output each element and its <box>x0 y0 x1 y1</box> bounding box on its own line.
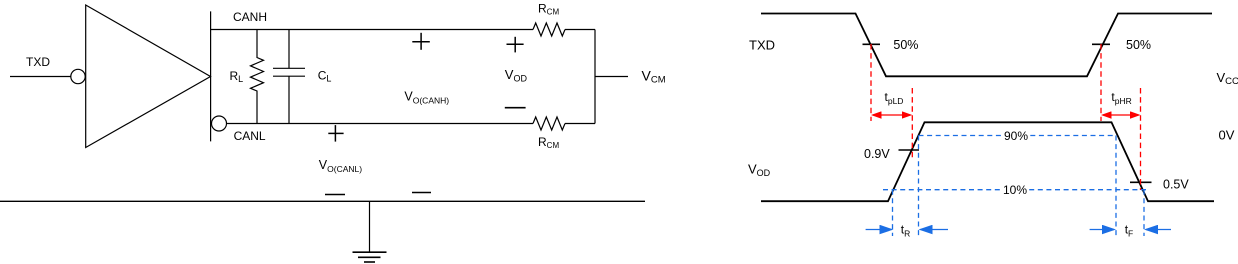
blue dashed vertical 10% rise <box>892 190 894 236</box>
minus sign VO(CANL) <box>325 194 345 196</box>
op-amp driver triangle U1 <box>86 5 211 148</box>
wire CANL to node <box>565 123 595 125</box>
wire CANH <box>211 29 533 31</box>
svg-text:0.9V: 0.9V <box>864 147 890 161</box>
wire TXD input <box>10 76 71 78</box>
tick 0.9V <box>899 149 920 151</box>
svg-text:50%: 50% <box>893 38 918 52</box>
blue dashed 10% line <box>883 189 1146 191</box>
tick 50% rising <box>1092 43 1110 45</box>
red dashed line tpLD left <box>870 44 872 121</box>
ground <box>369 201 371 252</box>
svg-text:tF: tF <box>1125 223 1134 239</box>
wire CANH to node <box>565 29 595 31</box>
minus sign VOD <box>505 107 526 109</box>
blue arrow tR left <box>866 229 892 231</box>
svg-text:RCM: RCM <box>538 2 559 17</box>
resistor RCM bottom <box>533 117 565 130</box>
wire CANL <box>227 123 533 125</box>
svg-text:CANH: CANH <box>233 10 267 24</box>
blue arrow tF right <box>1146 229 1171 231</box>
svg-text:VO(CANL): VO(CANL) <box>319 158 362 174</box>
capacitor CL <box>288 30 290 69</box>
label 10% <box>1001 183 1028 196</box>
svg-text:VOD: VOD <box>748 162 771 179</box>
svg-text:VCC: VCC <box>1217 70 1238 87</box>
svg-text:TXD: TXD <box>749 38 775 53</box>
svg-text:VOD: VOD <box>505 67 528 84</box>
svg-text:tR: tR <box>901 223 910 239</box>
svg-text:RCM: RCM <box>538 135 559 150</box>
tick 0.5V <box>1130 181 1152 183</box>
wire VCM stub <box>595 76 628 78</box>
svg-text:RL: RL <box>230 69 244 84</box>
svg-text:0.5V: 0.5V <box>1163 178 1189 192</box>
plus sign VO(CANH) <box>412 41 430 43</box>
blue dashed 90% line <box>919 135 1117 137</box>
red arrow tpLD <box>873 114 910 116</box>
tick 50% falling <box>863 43 881 45</box>
red dashed line tpLD right <box>911 88 913 160</box>
blue dashed vertical 90% rise <box>918 136 920 237</box>
svg-text:50%: 50% <box>1126 38 1151 52</box>
svg-text:90%: 90% <box>1004 129 1028 143</box>
svg-text:10%: 10% <box>1003 183 1027 197</box>
red dashed line tpHR right <box>1140 88 1142 190</box>
CANL output bubble <box>212 116 227 131</box>
svg-text:tpHR: tpHR <box>1111 90 1131 106</box>
blue dashed vertical 90% fall <box>1115 136 1117 237</box>
red arrow tpHR <box>1103 114 1139 116</box>
blue arrow tR right <box>921 229 949 231</box>
svg-text:0V: 0V <box>1219 128 1235 143</box>
svg-text:TXD: TXD <box>26 55 50 69</box>
waveform VOD <box>761 122 1214 201</box>
svg-text:VO(CANH): VO(CANH) <box>404 90 449 106</box>
red dashed line tpHR left <box>1100 44 1102 121</box>
blue arrow tF left <box>1090 229 1114 231</box>
waveform TXD <box>761 14 1212 77</box>
svg-text:VCM: VCM <box>642 68 666 86</box>
inverter input bubble <box>71 69 85 83</box>
svg-text:tpLD: tpLD <box>885 90 904 106</box>
resistor RL <box>251 30 264 124</box>
minus sign VO(CANH) <box>412 192 431 194</box>
label 90% <box>1002 129 1029 142</box>
svg-text:CL: CL <box>318 69 332 84</box>
plus sign VOD <box>507 43 524 45</box>
plus sign VO(CANL) <box>328 132 343 134</box>
wire ground rail <box>0 200 645 202</box>
wire VCM node vertical <box>594 30 596 124</box>
resistor RCM top <box>533 23 565 36</box>
wire output bus <box>210 11 212 141</box>
svg-text:CANL: CANL <box>234 129 266 143</box>
blue dashed vertical 10% fall <box>1143 190 1145 236</box>
